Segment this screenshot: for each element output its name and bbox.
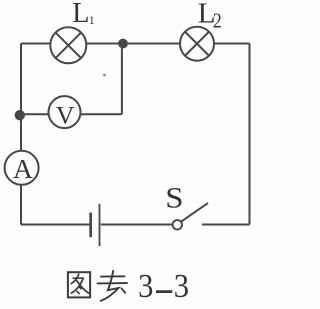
caption number 3 (138, 267, 153, 305)
svg-text:3: 3 (174, 267, 189, 305)
wire switch contact to right segment (202, 224, 250, 226)
switch blade (181, 203, 207, 221)
wire right (249, 44, 251, 225)
svg-text:1: 1 (89, 13, 95, 27)
label S (165, 181, 183, 214)
label L2 (198, 0, 216, 29)
voltmeter V (49, 96, 81, 128)
wire battery to switch segment (101, 224, 173, 226)
lamp L2 (180, 27, 214, 61)
svg-text:S: S (165, 181, 183, 214)
svg-text:2: 2 (213, 11, 222, 33)
battery positive plate (long) (99, 204, 101, 246)
caption number 3 second (174, 267, 189, 305)
caption dash (156, 290, 172, 293)
label L1 (72, 0, 89, 29)
wire left (20, 44, 22, 225)
stray speck (103, 74, 106, 77)
wire voltmeter branch (21, 113, 122, 115)
battery negative plate (short) (89, 213, 92, 238)
svg-text:L: L (72, 0, 89, 29)
wire voltmeter branch vertical (121, 44, 123, 115)
wire top (21, 43, 250, 45)
switch pivot (173, 220, 182, 229)
caption hanzi tu (box radical) (68, 272, 90, 297)
lamp L1 (50, 27, 86, 63)
ammeter A (5, 151, 39, 185)
wire bottom left segment (21, 224, 89, 226)
node junction dot left (15, 110, 25, 120)
svg-text:V: V (56, 101, 75, 130)
node junction dot top (118, 39, 128, 49)
svg-text:3: 3 (138, 267, 153, 305)
caption hanzi zhuan (98, 271, 128, 301)
svg-text:A: A (13, 153, 33, 184)
